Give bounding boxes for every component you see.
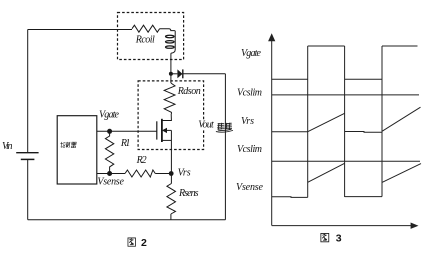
- wire Vout rail: [224, 74, 226, 220]
- wire arrow to source rail: [167, 129, 171, 131]
- svg-text:Vout: Vout: [198, 120, 214, 131]
- waveform axis horizontal: [272, 225, 411, 227]
- inductor coil spine: [171, 31, 175, 54]
- node Vrs: [169, 171, 174, 176]
- wire source stub: [162, 139, 172, 141]
- svg-text:Vrs: Vrs: [178, 167, 191, 178]
- wire node to Rdson: [170, 74, 172, 83]
- waveform Vgate high segment 1: [308, 45, 345, 47]
- waveform switching edge 1: [307, 46, 309, 197]
- waveform Vrs low 2: [345, 131, 382, 134]
- resistor Rdson: [164, 83, 175, 114]
- scribble crossed-out text: [216, 123, 233, 132]
- inductor coil ring 2: [166, 41, 175, 43]
- waveform Vsense ramp 1: [308, 163, 345, 182]
- waveform axis vertical arrow: [268, 33, 275, 41]
- battery Vin plate long: [16, 152, 38, 154]
- dashed box coil model: [118, 13, 184, 60]
- wire gate: [97, 130, 157, 132]
- waveform Vsense ramp 2: [382, 164, 421, 183]
- wire diode to Vout rail: [183, 73, 226, 75]
- wire bottom rail: [28, 219, 226, 221]
- svg-text:Vgate: Vgate: [99, 109, 120, 120]
- svg-text:R2: R2: [136, 155, 147, 166]
- svg-text:Vin: Vin: [2, 141, 13, 152]
- waveform switching edge 2: [344, 46, 346, 197]
- waveform Vsense low 2: [345, 196, 382, 198]
- waveform Vrs low 1: [272, 131, 308, 133]
- wire Vrs to Rsens: [170, 174, 172, 184]
- transistor body arrow: [162, 128, 167, 133]
- wire Rcoil to inductor: [160, 29, 175, 31]
- box controller: [57, 116, 97, 184]
- waveform switching edge 3: [381, 46, 383, 197]
- waveform Vcslim line 2: [272, 160, 420, 162]
- transistor gate bar: [156, 121, 158, 139]
- waveform Vsense low 1: [272, 196, 308, 199]
- wire top from Vin to Rcoil: [28, 29, 132, 31]
- resistor Rsens: [167, 184, 176, 215]
- svg-text:Vrs: Vrs: [241, 116, 254, 127]
- node Vsense: [107, 171, 112, 176]
- wire Rdson to drain: [162, 114, 172, 121]
- wire source down to Vrs: [170, 130, 172, 173]
- node Vgate: [107, 129, 112, 134]
- waveform Vgate high segment 2: [382, 45, 418, 47]
- resistor Rcoil: [132, 25, 160, 32]
- label controller (CJK strokes): [60, 142, 77, 148]
- caption fig2 glyph: [128, 238, 136, 246]
- resistor R1: [105, 131, 113, 173]
- transistor channel bar: [161, 119, 163, 142]
- node diode junction: [169, 72, 173, 76]
- inductor coil ring 3: [166, 46, 175, 48]
- wire R2 to Vrs: [155, 173, 171, 175]
- svg-text:Vsense: Vsense: [97, 176, 124, 187]
- waveform Vrs ramp 2: [382, 107, 421, 131]
- wire left rail upper: [27, 30, 29, 153]
- wire node to diode: [171, 73, 178, 75]
- svg-text:Rdson: Rdson: [177, 86, 201, 97]
- svg-text:Rsens: Rsens: [178, 188, 199, 199]
- wire left rail lower: [27, 159, 29, 219]
- waveform Vrs ramp 1: [308, 113, 345, 131]
- waveform Vgate low segment 2: [345, 78, 382, 80]
- svg-text:2: 2: [141, 237, 147, 249]
- svg-text:Rcoil: Rcoil: [135, 35, 155, 46]
- caption fig3 glyph: [321, 233, 329, 241]
- dashed box MOSFET model: [138, 81, 204, 150]
- svg-text:Vsense: Vsense: [236, 182, 264, 193]
- wire Rsens to bottom rail: [170, 214, 172, 220]
- svg-text:R1: R1: [120, 138, 130, 149]
- battery Vin plate short: [21, 158, 35, 160]
- svg-text:Vgate: Vgate: [241, 48, 262, 59]
- waveform axis vertical: [271, 39, 273, 226]
- svg-text:3: 3: [336, 233, 342, 245]
- svg-text:Vcslim: Vcslim: [237, 144, 262, 155]
- wire Vsense: [97, 173, 125, 175]
- waveform Vcslim line 1: [272, 94, 419, 96]
- inductor coil ring 1: [166, 35, 175, 37]
- diode D1: [177, 69, 182, 78]
- resistor R2: [125, 170, 155, 177]
- waveform Vgate low segment 1: [272, 78, 308, 80]
- label Vout: [198, 120, 216, 131]
- waveform axis horizontal arrow: [411, 223, 419, 229]
- svg-text:Vcslim: Vcslim: [237, 88, 262, 99]
- wire inductor to diode node: [170, 53, 172, 74]
- diode D1 cathode bar: [182, 69, 184, 78]
